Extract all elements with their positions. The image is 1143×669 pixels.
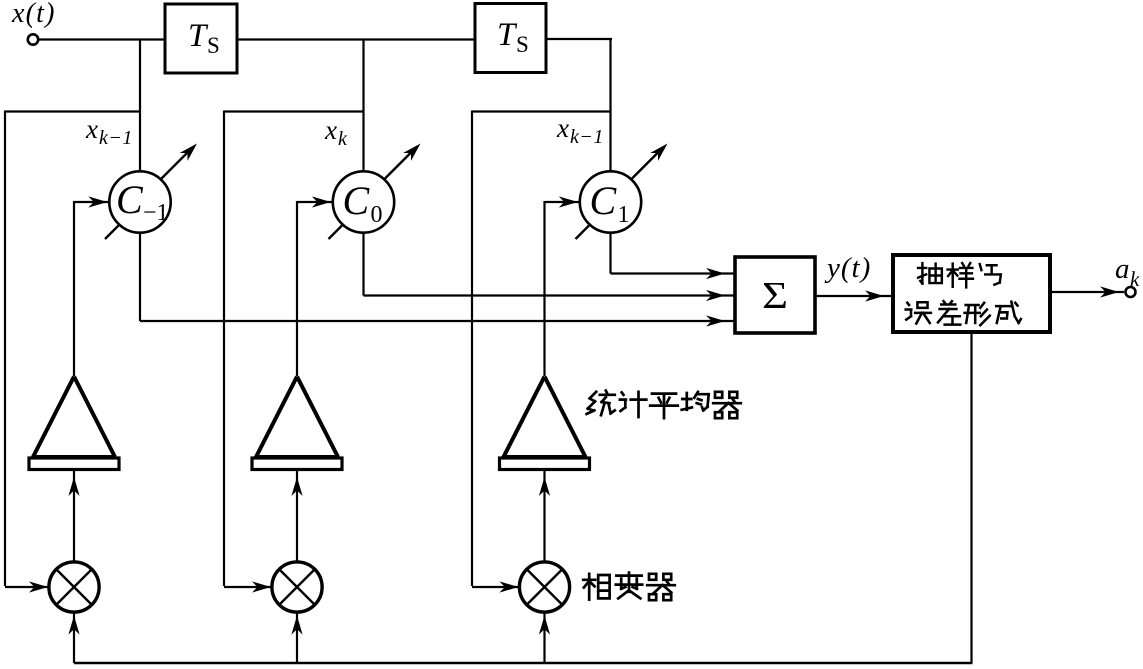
svg-text:k−1: k−1 <box>570 126 604 148</box>
svg-text:k: k <box>1130 267 1140 291</box>
delay block TS1 <box>165 4 237 73</box>
svg-text:C: C <box>343 178 371 223</box>
wire multiplier 3 to averager <box>539 470 550 563</box>
label multiplier <box>583 573 675 601</box>
wire output a_k <box>1050 286 1124 297</box>
tap gain C1 <box>576 140 672 239</box>
wire averager 1 output to C input <box>74 196 109 376</box>
node x(t) input terminal <box>11 0 56 45</box>
statistical averager 3 <box>500 377 590 470</box>
svg-text:1: 1 <box>618 202 630 228</box>
wire TS1 to TS2 <box>237 38 475 40</box>
sampler and error formation box <box>893 255 1050 332</box>
wire C2 output to summer <box>364 232 736 301</box>
svg-text:y(t): y(t) <box>824 252 871 284</box>
wire multiplier 1 to averager <box>68 470 79 563</box>
statistical averager 2 <box>252 377 342 470</box>
wire arrow into multiplier 2 <box>252 581 271 592</box>
svg-text:S: S <box>207 33 220 58</box>
svg-text:T: T <box>188 18 209 54</box>
wire tap-to-multiplier branch 2 <box>224 111 364 588</box>
svg-text:x(t): x(t) <box>11 0 56 29</box>
label x_k+1 (tap 3) <box>556 113 604 148</box>
svg-text:C: C <box>116 177 144 222</box>
wire tap-to-multiplier branch 3 <box>472 111 611 588</box>
svg-text:x: x <box>556 113 569 143</box>
wire tap 2 vertical <box>362 40 364 173</box>
wire averager 3 output to C input <box>545 196 580 376</box>
node a_k output terminal <box>1115 253 1140 297</box>
svg-text:k−1: k−1 <box>99 127 133 149</box>
wire arrow into multiplier 3 <box>499 581 518 592</box>
svg-text:S: S <box>516 32 529 57</box>
wire C3 output to summer <box>611 232 736 279</box>
wire feedback into multiplier 3 <box>539 612 550 663</box>
svg-text:a: a <box>1115 253 1130 285</box>
svg-text:k: k <box>338 128 348 150</box>
svg-text:Σ: Σ <box>762 275 788 317</box>
wire tap-to-multiplier branch 1 <box>5 111 140 588</box>
multiplier 1 <box>49 562 99 612</box>
svg-text:−1: −1 <box>143 200 169 226</box>
wire averager 2 output to C input <box>297 196 333 376</box>
label x_k-1 (tap 1) <box>85 114 133 149</box>
wire feedback into multiplier 2 <box>291 612 302 663</box>
summer SIGMA <box>735 257 815 333</box>
wire input to TS1 <box>38 38 165 40</box>
multiplier 3 <box>519 562 569 612</box>
wire error feedback <box>74 332 973 663</box>
tap gain C0 <box>329 140 425 239</box>
wire multiplier 2 to averager <box>291 470 302 563</box>
tap gain C-1 <box>105 140 201 239</box>
wire arrow into multiplier 1 <box>29 581 48 592</box>
delay block TS2 <box>475 4 546 73</box>
wire feedback into multiplier 1 <box>68 612 79 663</box>
svg-text:T: T <box>497 17 518 53</box>
svg-text:C: C <box>590 178 618 223</box>
svg-text:x: x <box>85 114 98 144</box>
svg-text:x: x <box>324 115 337 145</box>
wire tap 3 vertical <box>609 39 611 172</box>
wire tap 1 vertical <box>139 40 141 173</box>
svg-text:0: 0 <box>371 202 383 228</box>
wire TS2 output to corner <box>546 38 612 40</box>
wire C1 output to summer <box>140 232 735 327</box>
label x_k (tap 2) <box>324 115 348 150</box>
wire y(t) summer to sampler <box>815 290 893 301</box>
statistical averager 1 <box>29 377 119 470</box>
label y(t) <box>824 252 871 284</box>
multiplier 2 <box>272 562 322 612</box>
label statistical averager <box>587 391 741 419</box>
